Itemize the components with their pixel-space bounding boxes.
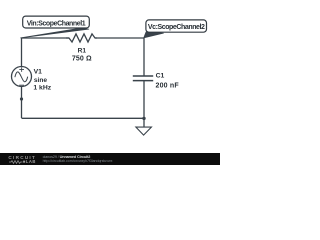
svg-text:1 kHz: 1 kHz	[33, 85, 51, 92]
wire: C1 bottom plate down to junction	[143, 81, 145, 119]
wire: Vin net horizontal (corner to R1 left lead)	[22, 37, 70, 39]
ground symbol	[136, 127, 152, 135]
wire: bottom ground net horizontal	[22, 117, 145, 119]
junction dot: ground T-junction	[142, 117, 145, 120]
svg-text:Vc:ScopeChannel2: Vc:ScopeChannel2	[148, 24, 205, 31]
voltage source V1 (circle, sine, + and - marks)	[12, 67, 32, 87]
footer watermark bar	[0, 153, 220, 165]
svg-text:750 Ω: 750 Ω	[72, 55, 92, 62]
wire: Vin net vertical (flag corner to V1 top)	[21, 38, 23, 67]
net flag Vin:ScopeChannel1	[21, 16, 90, 38]
svg-text:200 nF: 200 nF	[156, 82, 180, 89]
footer logo CIRCUIT LAB	[8, 155, 36, 160]
svg-text:Vin:ScopeChannel1: Vin:ScopeChannel1	[27, 21, 86, 28]
footer text	[43, 155, 91, 159]
resistor R1	[66, 34, 97, 42]
svg-text:C1: C1	[156, 73, 165, 80]
svg-text:sine: sine	[34, 77, 48, 84]
wire: Vc net vertical (corner down to C1 top plate)	[143, 38, 145, 76]
wire: V1 bottom lead down to bottom-left corner	[21, 87, 23, 119]
net flag Vc:ScopeChannel2	[144, 20, 207, 38]
capacitor C1 (two plates)	[133, 76, 153, 81]
wire: ground stub	[143, 118, 145, 127]
wire: R1 right lead to top-right corner	[95, 37, 144, 39]
junction dot: V1 bottom terminal	[20, 97, 23, 100]
svg-text:V1: V1	[34, 69, 43, 76]
svg-text:R1: R1	[78, 47, 87, 54]
